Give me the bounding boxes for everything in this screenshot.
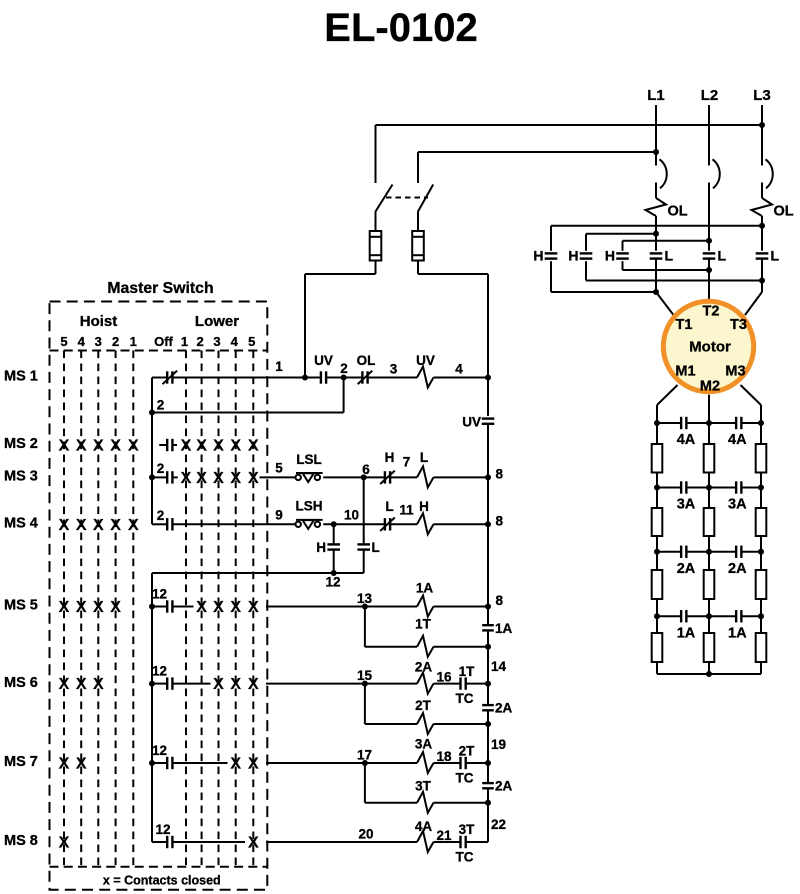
wire H1 branch: [550, 226, 552, 292]
svg-text:11: 11: [399, 503, 414, 518]
svg-text:X: X: [248, 599, 259, 616]
svg-text:2: 2: [157, 461, 165, 476]
svg-text:Hoist: Hoist: [80, 313, 118, 330]
junction rail 2T: [485, 721, 491, 727]
crossbar 2A row: [657, 551, 681, 553]
limit switch LSH: [296, 522, 301, 527]
wire column left seg3: [656, 552, 658, 570]
inner dashed line above legend: [50, 866, 268, 868]
svg-text:2A: 2A: [495, 701, 513, 716]
svg-text:7: 7: [403, 455, 411, 470]
junction L1 A2: [653, 289, 659, 295]
contact OL NC: [344, 377, 363, 379]
bus MS5-MS8: [151, 573, 153, 842]
crossbar 4A row: [657, 422, 681, 424]
contact MS8: [152, 841, 167, 843]
svg-text:X: X: [110, 517, 121, 534]
svg-text:L2: L2: [701, 87, 719, 104]
junction rail node8b: [485, 521, 491, 527]
contact 4A left: [680, 417, 682, 429]
coil 3A: [417, 752, 434, 773]
svg-text:1T: 1T: [415, 617, 432, 632]
rung MS3 to coil L: [390, 476, 417, 478]
contact 3A right: [735, 481, 737, 493]
wire column left seg2: [656, 488, 658, 509]
contact 1A rail: [482, 624, 494, 626]
svg-text:1T: 1T: [459, 664, 476, 679]
svg-text:3: 3: [390, 362, 398, 377]
resistor Rleft4: [652, 633, 663, 662]
svg-text:MS 8: MS 8: [4, 833, 38, 849]
wire column mid seg4: [708, 616, 710, 633]
rung MS3 wire after X: [260, 476, 295, 478]
knife switch blade right: [418, 185, 433, 212]
contact UV seal: [482, 417, 495, 419]
rung MS8 wire after X: [266, 841, 417, 843]
knife switch blade left: [376, 185, 393, 212]
svg-text:X: X: [110, 599, 121, 616]
svg-text:5: 5: [60, 334, 67, 349]
junction bus MS7: [149, 760, 155, 766]
svg-text:2A: 2A: [677, 561, 696, 577]
wire top feed to knife switch: [376, 124, 763, 126]
branch 1T wire: [364, 607, 366, 647]
contact 2A rail lower: [482, 782, 494, 784]
svg-text:4A: 4A: [415, 819, 433, 834]
svg-text:1A: 1A: [416, 581, 434, 596]
svg-text:2: 2: [157, 398, 165, 413]
wire L1 to motor section: [655, 216, 657, 251]
svg-text:X: X: [76, 676, 87, 693]
rung MS6 wire after X: [266, 683, 365, 685]
svg-text:2: 2: [112, 334, 119, 349]
svg-text:L: L: [718, 248, 727, 264]
svg-text:MS 6: MS 6: [4, 675, 38, 691]
svg-text:H: H: [385, 450, 395, 465]
svg-text:2T: 2T: [459, 744, 476, 759]
wire column left seg1: [656, 423, 658, 444]
contact MS4: [152, 523, 167, 525]
junction bar1 left: [654, 420, 660, 426]
right rail upper: [487, 274, 489, 416]
svg-text:4: 4: [78, 334, 86, 349]
svg-text:x = Contacts closed: x = Contacts closed: [103, 874, 221, 888]
svg-text:X: X: [59, 676, 70, 693]
svg-text:UV: UV: [462, 415, 481, 430]
wire column right seg4: [760, 616, 762, 633]
contact H NC: [364, 476, 385, 478]
wire L3 below breaker: [761, 183, 763, 199]
svg-text:X: X: [59, 517, 70, 534]
svg-text:4: 4: [455, 362, 463, 377]
breaker contact L1: [660, 159, 667, 188]
rung MS4 to coil H: [390, 523, 417, 525]
svg-text:OL: OL: [774, 204, 794, 220]
junction node 10: [331, 521, 337, 527]
wire L1 below breaker: [655, 183, 657, 199]
svg-text:X: X: [196, 470, 207, 487]
svg-text:12: 12: [152, 587, 167, 602]
resistor Rright3: [756, 570, 767, 599]
wire M1 to resistor bank: [657, 385, 678, 405]
wire L3 vertical upper: [761, 105, 763, 166]
contact L on L2: [703, 251, 716, 261]
junction L1 second feed: [653, 149, 659, 155]
svg-text:16: 16: [436, 670, 452, 685]
contact 3T TC: [459, 836, 461, 848]
junction node 12: [331, 570, 337, 576]
svg-text:5: 5: [275, 461, 283, 476]
resistor Rmid2: [704, 508, 715, 536]
svg-text:1A: 1A: [677, 625, 696, 641]
svg-text:2: 2: [340, 361, 348, 376]
svg-text:X: X: [76, 438, 87, 455]
svg-text:12: 12: [325, 575, 340, 590]
wire column mid seg3: [708, 552, 710, 570]
resistor Rleft2: [652, 508, 663, 536]
junction rail node19: [485, 760, 491, 766]
junction rail node14: [485, 681, 491, 687]
lower column dashed lines: [185, 351, 187, 867]
junction L3 A: [759, 223, 765, 229]
wire below fuse F1: [375, 261, 377, 275]
contact 2T TC: [459, 757, 461, 769]
wire column right seg2: [760, 488, 762, 509]
junction bottom bus: [706, 671, 712, 677]
resistor Rleft3: [652, 570, 663, 599]
svg-text:X: X: [248, 438, 259, 455]
contact MS7: [152, 762, 167, 764]
svg-text:X: X: [230, 470, 241, 487]
rung MS8 to rail: [466, 841, 488, 843]
contact 4A right: [735, 417, 737, 429]
contact L NC: [384, 518, 386, 530]
resistor Rmid3: [704, 570, 715, 599]
svg-text:20: 20: [358, 827, 373, 842]
svg-text:X: X: [230, 756, 241, 773]
wire left pole drop: [375, 125, 377, 183]
junction bar4 mid: [706, 613, 712, 619]
svg-text:3A: 3A: [677, 497, 696, 513]
svg-text:H: H: [419, 499, 429, 514]
wire crossover A: [551, 225, 762, 227]
junction rail 1T: [485, 644, 491, 650]
wire to right rail top: [418, 273, 488, 275]
svg-text:10: 10: [344, 508, 359, 523]
svg-text:X: X: [93, 599, 104, 616]
svg-text:OL: OL: [668, 204, 688, 220]
svg-text:9: 9: [275, 508, 283, 523]
svg-text:T1: T1: [676, 317, 693, 333]
svg-text:MS 2: MS 2: [4, 436, 38, 452]
svg-text:T2: T2: [703, 304, 720, 320]
wire L3 cap sections: [761, 259, 763, 292]
svg-text:Master Switch: Master Switch: [107, 280, 213, 297]
coil 2T: [417, 713, 434, 734]
right rail seg3: [487, 630, 489, 705]
junction L2 C: [706, 238, 712, 244]
svg-text:2T: 2T: [415, 698, 432, 713]
svg-text:3T: 3T: [415, 779, 432, 794]
resistor Rright2: [756, 508, 767, 536]
wire column right seg3: [760, 552, 762, 570]
rung MS7 to coil 3A: [365, 762, 417, 764]
rung MS6 lead: [172, 683, 210, 685]
contact H1: [545, 251, 558, 261]
junction L1 B: [653, 231, 659, 237]
rung MS1 to node2: [326, 377, 344, 379]
bus MS1-MS4: [151, 378, 153, 525]
contact 1T TC: [459, 677, 461, 689]
contact 1A left: [680, 610, 682, 622]
wire H branch: [333, 524, 335, 544]
breaker contact L2: [713, 159, 720, 188]
svg-text:X: X: [230, 599, 241, 616]
svg-text:X: X: [196, 599, 207, 616]
junction bar3 left: [654, 549, 660, 555]
right rail seg2: [487, 424, 489, 625]
svg-text:X: X: [76, 517, 87, 534]
svg-text:X: X: [59, 599, 70, 616]
junction L2 C2: [706, 267, 712, 273]
contact H2: [580, 251, 593, 261]
svg-text:X: X: [248, 756, 259, 773]
right rail seg4: [487, 710, 489, 783]
svg-text:MS 7: MS 7: [4, 754, 38, 770]
contact L on L1: [650, 251, 663, 261]
contact MS3: [152, 476, 167, 478]
svg-text:X: X: [248, 470, 259, 487]
junction bar3 mid: [706, 549, 712, 555]
svg-text:UV: UV: [416, 353, 435, 368]
svg-text:1: 1: [130, 334, 137, 349]
wire right pole drop: [417, 152, 419, 183]
svg-text:3: 3: [95, 334, 102, 349]
contact MS5: [152, 606, 167, 608]
svg-text:1: 1: [181, 334, 188, 349]
wire L2 cap sections: [708, 259, 710, 299]
rung MS6 to 1T contact: [434, 683, 461, 685]
branch 1T to rail: [434, 646, 489, 648]
svg-text:LSL: LSL: [296, 452, 322, 467]
svg-text:UV: UV: [314, 353, 333, 368]
rung MS8 to 3T contact: [434, 841, 461, 843]
junction rail node8c: [485, 604, 491, 610]
crossbar 1A row: [657, 615, 681, 617]
rung MS5 lead: [172, 606, 193, 608]
svg-text:8: 8: [496, 593, 504, 608]
resistor Rmid1: [704, 444, 715, 473]
svg-text:H: H: [533, 248, 543, 264]
svg-text:1A: 1A: [728, 625, 747, 641]
svg-text:H: H: [568, 248, 578, 264]
svg-text:L: L: [372, 540, 380, 555]
contact 3A left: [680, 481, 682, 493]
svg-text:Off: Off: [154, 334, 173, 349]
svg-text:L1: L1: [647, 87, 665, 104]
svg-text:Lower: Lower: [195, 313, 239, 330]
svg-text:13: 13: [357, 591, 373, 606]
svg-text:X: X: [59, 835, 70, 852]
svg-text:M3: M3: [725, 364, 745, 380]
rung MS3 to node6: [323, 476, 364, 478]
junction node 2: [341, 375, 347, 381]
svg-text:8: 8: [496, 513, 504, 528]
contact 1A right: [735, 610, 737, 622]
rung MS4 to H branch: [323, 523, 385, 525]
fuse F2: [412, 231, 424, 261]
wire L2 below breaker: [708, 183, 710, 251]
svg-text:22: 22: [491, 817, 506, 832]
svg-text:X: X: [59, 438, 70, 455]
svg-text:TC: TC: [456, 691, 474, 706]
wire H3 branch: [622, 241, 624, 270]
svg-text:4: 4: [231, 334, 239, 349]
svg-text:X: X: [128, 517, 139, 534]
rung MS8 lead: [172, 841, 245, 843]
junction node 13: [362, 604, 368, 610]
svg-text:17: 17: [357, 748, 372, 763]
overload OL heater L1: [646, 198, 667, 216]
wire crossover B return: [586, 280, 762, 282]
svg-text:2: 2: [157, 508, 165, 523]
junction L3 B2: [759, 278, 765, 284]
junction rail node8a: [485, 474, 491, 480]
svg-text:1: 1: [275, 359, 283, 374]
junction bus MS3: [149, 474, 155, 480]
rung MS7 lead: [172, 762, 227, 764]
junction rail node4: [485, 375, 491, 381]
rung MS1 to rail: [434, 377, 489, 379]
svg-text:M2: M2: [700, 379, 720, 395]
svg-text:X: X: [230, 676, 241, 693]
wire L1 cap sections: [655, 259, 657, 292]
wire M3 to resistor bank: [741, 385, 762, 405]
wire L branch lower: [363, 550, 365, 573]
contact MS1 NC: [166, 371, 168, 383]
svg-text:X: X: [196, 438, 207, 455]
wire left blade to fuse: [375, 212, 377, 232]
wire H branch lower: [333, 550, 335, 573]
wire crossover C: [623, 240, 710, 242]
svg-text:Motor: Motor: [689, 339, 731, 356]
svg-text:X: X: [59, 756, 70, 773]
master switch outer dashed border: [50, 302, 268, 890]
svg-text:MS 4: MS 4: [4, 516, 38, 532]
resistor Rleft1: [652, 444, 663, 473]
svg-text:15: 15: [357, 668, 373, 683]
wire node 12: [152, 572, 364, 574]
svg-text:X: X: [181, 470, 192, 487]
wire below fuse F2: [417, 261, 419, 275]
coil 1A: [417, 596, 434, 617]
wire column mid seg2: [708, 488, 710, 509]
svg-text:X: X: [76, 599, 87, 616]
svg-text:3T: 3T: [459, 822, 476, 837]
svg-text:3A: 3A: [728, 497, 747, 513]
junction bar3 right: [758, 549, 764, 555]
wire L3 to motor section: [761, 216, 763, 251]
contact L on L3: [756, 251, 769, 261]
fuse F1: [370, 231, 382, 261]
coil H: [417, 513, 434, 534]
wire crossover B: [586, 233, 656, 235]
wire column left seg4: [656, 616, 658, 633]
svg-text:L: L: [665, 248, 674, 264]
svg-text:18: 18: [436, 749, 452, 764]
coil L: [417, 466, 434, 487]
svg-text:MS 1: MS 1: [4, 369, 38, 385]
rung MS1 to coil UV: [368, 377, 417, 379]
rung MS1 wire to node1: [172, 377, 305, 379]
junction node 6: [361, 474, 367, 480]
branch 2T to rail: [434, 723, 489, 725]
svg-text:6: 6: [362, 462, 370, 477]
wire crossover C return: [623, 269, 710, 271]
svg-text:12: 12: [152, 743, 167, 758]
svg-text:X: X: [213, 599, 224, 616]
coil 1T: [417, 636, 434, 657]
crossbar 3A row: [657, 487, 681, 489]
rung MS5 wire after X: [266, 606, 365, 608]
contact H aux: [327, 543, 340, 545]
branch 3T to rail: [434, 802, 489, 804]
svg-text:X: X: [110, 438, 121, 455]
right rail seg5: [487, 788, 489, 842]
contact 2A right: [735, 546, 737, 558]
wire L branch: [363, 477, 365, 544]
wire L1 to T1: [656, 292, 674, 315]
wire L3 to T3: [745, 292, 762, 315]
svg-text:19: 19: [491, 737, 506, 752]
wire H2 branch: [585, 234, 587, 281]
rung MS6 to coil 2A: [365, 683, 417, 685]
junction L3 top: [759, 122, 765, 128]
contact UV: [320, 371, 322, 383]
svg-text:21: 21: [436, 828, 452, 843]
contact MS2: [159, 444, 167, 446]
branch 3T wire: [364, 763, 366, 803]
wire L2 vertical upper: [708, 105, 710, 166]
wire resistor bottom bus: [657, 673, 761, 675]
svg-text:T3: T3: [730, 317, 747, 333]
svg-text:MS 3: MS 3: [4, 469, 38, 485]
coil 2A: [417, 673, 434, 694]
junction bus node2: [149, 410, 155, 416]
junction bar1 mid: [706, 420, 712, 426]
svg-text:MS 5: MS 5: [4, 598, 38, 614]
svg-text:X: X: [213, 470, 224, 487]
junction bar1 right: [758, 420, 764, 426]
rung MS7 to rail: [466, 762, 488, 764]
overload OL heater L3: [752, 198, 773, 216]
contact L aux: [357, 543, 370, 545]
wire second feed to knife switch: [418, 151, 656, 153]
svg-text:X: X: [248, 676, 259, 693]
svg-text:1A: 1A: [495, 621, 513, 636]
rung MS4 to rail: [434, 523, 489, 525]
resistor Rright4: [756, 633, 767, 662]
rung MS7 wire after X: [266, 762, 365, 764]
contact 2A rail: [482, 704, 494, 706]
svg-text:X: X: [230, 438, 241, 455]
wire node2 return: [343, 378, 345, 413]
svg-text:L: L: [420, 450, 428, 465]
knife switch link dashed: [386, 197, 428, 199]
svg-text:X: X: [213, 676, 224, 693]
svg-text:TC: TC: [456, 850, 474, 865]
svg-text:2: 2: [196, 334, 203, 349]
